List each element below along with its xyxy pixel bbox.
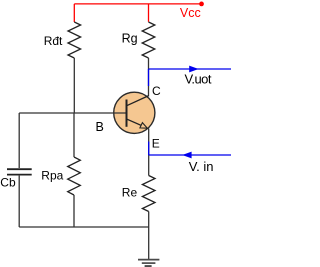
resistor Rpa bbox=[68, 157, 81, 195]
svg-text:E: E bbox=[152, 136, 160, 150]
wire left branch down to Cb bbox=[18, 113, 20, 168]
wire bottom rail bbox=[19, 226, 149, 228]
resistor Rg bbox=[142, 22, 155, 58]
svg-text:B: B bbox=[96, 120, 104, 134]
wire blue stub down collector bbox=[148, 69, 150, 86]
wire emitter down bbox=[148, 129, 150, 176]
svg-text:Cb: Cb bbox=[0, 175, 16, 189]
wire red drop to Rdt bbox=[73, 4, 75, 22]
capacitor Cb top plate bbox=[7, 168, 32, 170]
svg-text:Rg: Rg bbox=[122, 32, 138, 46]
wire V.uot output line (blue) bbox=[149, 68, 232, 70]
wire base node to Rpa bbox=[73, 113, 75, 157]
transistor Q1 body bbox=[114, 92, 155, 133]
svg-text:V. in: V. in bbox=[189, 159, 214, 174]
svg-text:Vcc: Vcc bbox=[180, 6, 201, 20]
transistor base bar bbox=[126, 100, 128, 127]
capacitor Cb bottom plate bbox=[7, 174, 32, 176]
transistor emitter arrowhead bbox=[140, 123, 147, 129]
wire V.in input line (blue) bbox=[149, 154, 231, 156]
resistor Re bbox=[142, 176, 155, 212]
wire Rg bottom to collector bbox=[148, 58, 150, 97]
wire Cb to bottom rail bbox=[18, 176, 20, 227]
wire Rpa to bottom rail bbox=[73, 195, 75, 227]
svg-text:Re: Re bbox=[122, 186, 138, 200]
transistor collector stroke bbox=[127, 96, 149, 106]
ground bbox=[138, 260, 159, 267]
wire base lead bbox=[19, 112, 126, 114]
wire Rdt bottom to base node bbox=[73, 58, 75, 113]
wire Re bottom to ground rail bbox=[148, 212, 150, 260]
svg-text:Rpa: Rpa bbox=[41, 169, 63, 183]
svg-text:Rđt: Rđt bbox=[44, 34, 63, 48]
wire red drop to Rg bbox=[148, 4, 150, 22]
wire top rail horizontal bbox=[74, 3, 201, 5]
svg-text:V.uot: V.uot bbox=[185, 71, 212, 86]
svg-text:C: C bbox=[152, 84, 161, 98]
resistor Rdt bbox=[68, 22, 81, 58]
transistor emitter stroke bbox=[127, 119, 147, 128]
Vcc supply rail (red) bbox=[74, 4, 201, 22]
arrow output direction bbox=[189, 66, 198, 73]
wire blue stub emitter bbox=[148, 142, 150, 156]
arrow input direction bbox=[182, 152, 191, 159]
node Vcc terminal dot bbox=[199, 2, 204, 7]
